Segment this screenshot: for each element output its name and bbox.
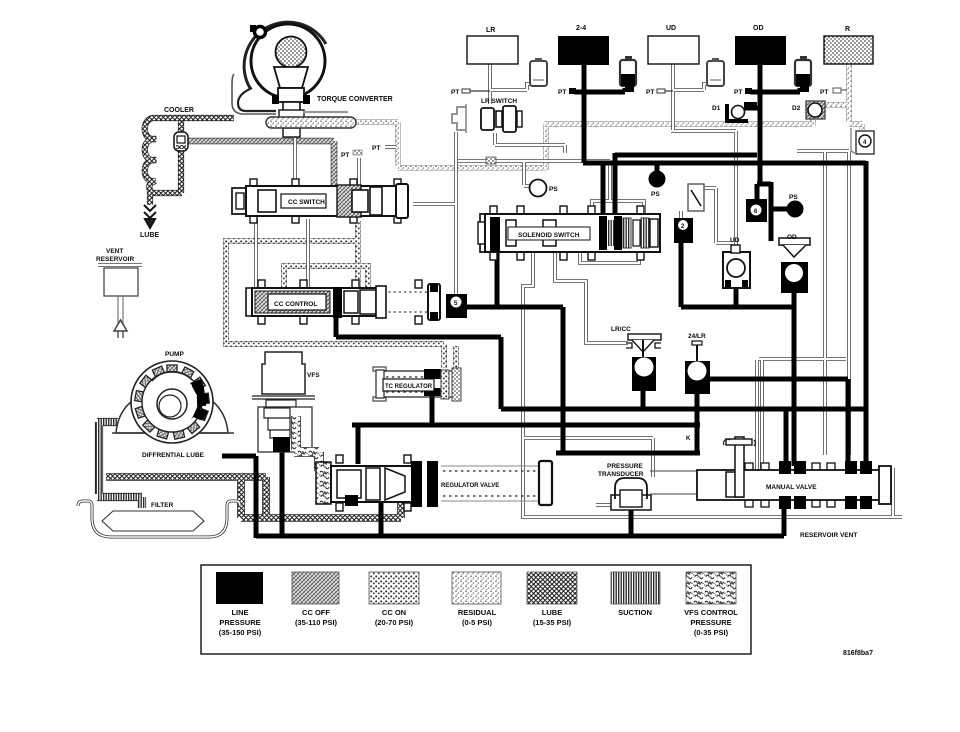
wire main horizontal y163 to right side — [583, 161, 866, 166]
svg-text:RESERVOIR: RESERVOIR — [96, 256, 134, 263]
wire center drop elbow to 24/LR junction — [556, 451, 700, 456]
legend swatch cc on — [369, 572, 419, 604]
PS3 white pressure switch — [530, 180, 547, 197]
svg-text:PT: PT — [451, 89, 459, 96]
box 2 — [674, 218, 693, 243]
svg-text:RESERVOIR VENT: RESERVOIR VENT — [800, 532, 857, 539]
svg-text:VFS: VFS — [307, 372, 320, 379]
box 4 — [851, 128, 874, 154]
wire solenoid drop a — [601, 163, 606, 218]
PT fitting UD — [646, 89, 673, 96]
wire D1 link — [744, 106, 758, 111]
svg-text:CC ON: CC ON — [382, 608, 406, 617]
svg-text:LR/CC: LR/CC — [611, 326, 631, 333]
gear teeth ring — [135, 365, 210, 439]
wire cc-on loop — [226, 221, 456, 368]
svg-text:MANUAL VALVE: MANUAL VALVE — [766, 484, 817, 491]
wire UD valve drop — [734, 288, 739, 307]
TC regulator — [373, 367, 461, 401]
box UD — [648, 36, 699, 64]
box 5 — [446, 294, 467, 318]
wire 6 box stem — [755, 184, 760, 199]
PT fitting OD — [734, 88, 752, 96]
wire VFS drop — [280, 450, 285, 536]
svg-text:VFS CONTROL: VFS CONTROL — [684, 608, 738, 617]
filter — [78, 499, 240, 537]
manual valve — [650, 437, 891, 509]
svg-text:LINE: LINE — [231, 608, 248, 617]
D1 — [727, 104, 757, 121]
wire transducer drop — [629, 510, 634, 536]
torque converter — [232, 22, 326, 137]
cooler check capsule — [174, 132, 188, 151]
svg-text:LUBE: LUBE — [140, 232, 159, 239]
wire regulator valve bottom drop — [379, 500, 384, 536]
CC switch valve — [232, 179, 408, 223]
flange tabs — [250, 179, 401, 223]
svg-text:PT: PT — [372, 145, 380, 152]
torque converter drain pipe — [266, 117, 356, 128]
accumulator 2-4 — [620, 56, 636, 92]
svg-text:FILTER: FILTER — [151, 502, 174, 509]
wire bottom long line — [256, 500, 784, 536]
wire box5 to center drop — [464, 307, 563, 453]
svg-text:(0-5 PSI): (0-5 PSI) — [462, 618, 493, 627]
svg-text:VENT: VENT — [106, 248, 123, 255]
svg-text:816f8ba7: 816f8ba7 — [843, 650, 873, 657]
svg-text:PT: PT — [820, 89, 828, 96]
svg-text:PS: PS — [549, 186, 558, 193]
wire residual R drop — [849, 64, 862, 132]
svg-text:UD: UD — [666, 25, 676, 32]
box R — [824, 36, 873, 64]
svg-text:LR: LR — [486, 27, 495, 34]
accumulator OD — [795, 56, 811, 92]
PT fitting LR — [451, 89, 490, 96]
wire manual valve feed a — [784, 409, 789, 466]
accumulator LR — [530, 58, 547, 86]
svg-text:PT: PT — [558, 89, 566, 96]
svg-text:PT: PT — [646, 89, 654, 96]
box 6 — [746, 199, 767, 222]
wire differential lube riser — [222, 456, 256, 538]
svg-text:COOLER: COOLER — [164, 107, 194, 114]
wire box2 down — [681, 242, 794, 307]
legend swatch lube — [527, 572, 577, 604]
small bearing — [255, 27, 266, 38]
svg-text:DIFFRENTIAL LUBE: DIFFRENTIAL LUBE — [142, 452, 205, 459]
svg-text:UD: UD — [730, 237, 740, 244]
PS1 black pressure switch — [649, 171, 666, 188]
svg-text:TORQUE CONVERTER: TORQUE CONVERTER — [317, 96, 393, 103]
spring dots section — [378, 292, 428, 312]
svg-text:K: K — [686, 436, 691, 442]
legend swatch line pressure — [216, 572, 263, 604]
svg-text:OD: OD — [787, 234, 797, 241]
svg-text:CC SWITCH: CC SWITCH — [288, 199, 325, 206]
label regulator valve — [440, 478, 508, 490]
svg-text:PT: PT — [734, 89, 742, 96]
svg-text:OD: OD — [753, 25, 764, 32]
svg-text:PRESSURE: PRESSURE — [607, 463, 643, 470]
LR switch — [452, 104, 522, 133]
svg-text:PS: PS — [789, 194, 798, 201]
wire LR/CC drop — [641, 391, 646, 409]
stator cone — [274, 67, 308, 88]
wire OD down — [757, 64, 771, 241]
legend swatch vfs control — [686, 572, 736, 604]
accumulator UD — [707, 58, 724, 86]
regulator valve — [316, 455, 552, 511]
pump — [112, 361, 234, 443]
wire PS1 stem — [655, 163, 660, 172]
svg-text:PRESSURE: PRESSURE — [690, 618, 731, 627]
wire cc-off feed to CC switch — [183, 141, 334, 186]
OD check valve — [779, 238, 810, 293]
pressure transducer — [611, 478, 651, 510]
switch symbol above box2 — [688, 184, 704, 211]
wire regulator valve top feed — [356, 425, 361, 464]
svg-text:PS: PS — [651, 191, 660, 198]
wire 2-4 PT stub — [574, 88, 625, 92]
svg-text:REGULATOR VALVE: REGULATOR VALVE — [441, 483, 499, 489]
wire cooler right return (lube) — [178, 120, 184, 193]
wire OD PT stub — [750, 88, 800, 92]
wire TC regulator drop — [430, 394, 435, 425]
24/LR valve — [685, 341, 710, 394]
wire 24/LR right link to manual valve — [710, 379, 848, 466]
svg-text:24/LR: 24/LR — [688, 333, 706, 340]
UD limit valve — [723, 245, 750, 288]
wire residual D2 stub — [824, 102, 847, 108]
svg-text:PT: PT — [341, 152, 349, 159]
wire cc-on control ports — [284, 266, 368, 289]
box LR — [467, 36, 518, 64]
crescent — [190, 379, 205, 419]
wire cooler zigzag (lube) — [145, 118, 180, 205]
svg-text:TRANSDUCER: TRANSDUCER — [598, 471, 644, 478]
svg-text:LR SWITCH: LR SWITCH — [481, 98, 517, 105]
CC control valve — [246, 280, 440, 324]
lube arrow — [144, 205, 156, 228]
legend swatch residual — [452, 572, 501, 604]
wire right tall vertical — [864, 161, 869, 466]
svg-text:2-4: 2-4 — [576, 25, 586, 32]
solenoid switch — [478, 206, 660, 260]
wire OD valve drop — [792, 293, 797, 466]
PT fitting R — [820, 88, 847, 96]
svg-text:PRESSURE: PRESSURE — [219, 618, 260, 627]
LR/CC valve — [626, 334, 661, 391]
svg-text:RESIDUAL: RESIDUAL — [458, 608, 497, 617]
box 2-4 — [558, 36, 609, 65]
wire suction filter to pump — [97, 422, 142, 508]
tc output gray line — [303, 111, 348, 113]
legend swatch cc off — [292, 572, 339, 604]
wire vfs control squiggle to regulator — [294, 416, 333, 473]
wire 24/LR drop — [695, 394, 700, 455]
svg-text:LUBE: LUBE — [542, 608, 562, 617]
connector on LR switch line — [486, 157, 496, 164]
svg-text:D1: D1 — [712, 105, 721, 112]
turbine ball — [276, 37, 307, 68]
wire PS2 stem — [773, 207, 787, 212]
svg-text:TC REGULATOR: TC REGULATOR — [385, 384, 433, 390]
svg-text:R: R — [845, 26, 850, 33]
box OD — [735, 36, 786, 65]
PS2 black pressure switch — [787, 201, 804, 218]
wire solenoid drop b — [613, 153, 618, 218]
D2 — [806, 101, 825, 119]
svg-text:CC CONTROL: CC CONTROL — [274, 301, 317, 308]
svg-text:D2: D2 — [792, 105, 801, 112]
wire lube return loop bottom — [106, 477, 401, 518]
svg-text:(0-35 PSI): (0-35 PSI) — [694, 628, 729, 637]
spring — [443, 471, 540, 496]
outer circle — [251, 24, 325, 98]
wire mid horizontal y425 — [352, 423, 700, 428]
wire cooler to torque converter (lube) — [178, 115, 234, 121]
svg-text:(15-35 PSI): (15-35 PSI) — [533, 618, 572, 627]
wire 2-4 down — [582, 64, 587, 163]
legend swatch suction — [611, 572, 660, 604]
wire solenoid left down — [495, 247, 500, 307]
svg-text:(35-150 PSI): (35-150 PSI) — [219, 628, 262, 637]
VFS solenoid — [252, 352, 333, 473]
svg-text:PUMP: PUMP — [165, 351, 184, 358]
svg-text:SOLENOID SWITCH: SOLENOID SWITCH — [518, 232, 580, 239]
wire upper horizontal y155 — [615, 153, 757, 158]
housing bell — [244, 22, 326, 88]
wire CC control down and right — [336, 316, 867, 409]
PT fitting 2-4 — [558, 88, 576, 96]
wire residual top long run — [352, 117, 813, 170]
svg-text:(35-110 PSI): (35-110 PSI) — [295, 618, 338, 627]
svg-text:CC OFF: CC OFF — [302, 608, 330, 617]
svg-text:SUCTION: SUCTION — [618, 608, 652, 617]
vent reservoir — [104, 268, 138, 338]
svg-text:(20-70 PSI): (20-70 PSI) — [375, 618, 414, 627]
